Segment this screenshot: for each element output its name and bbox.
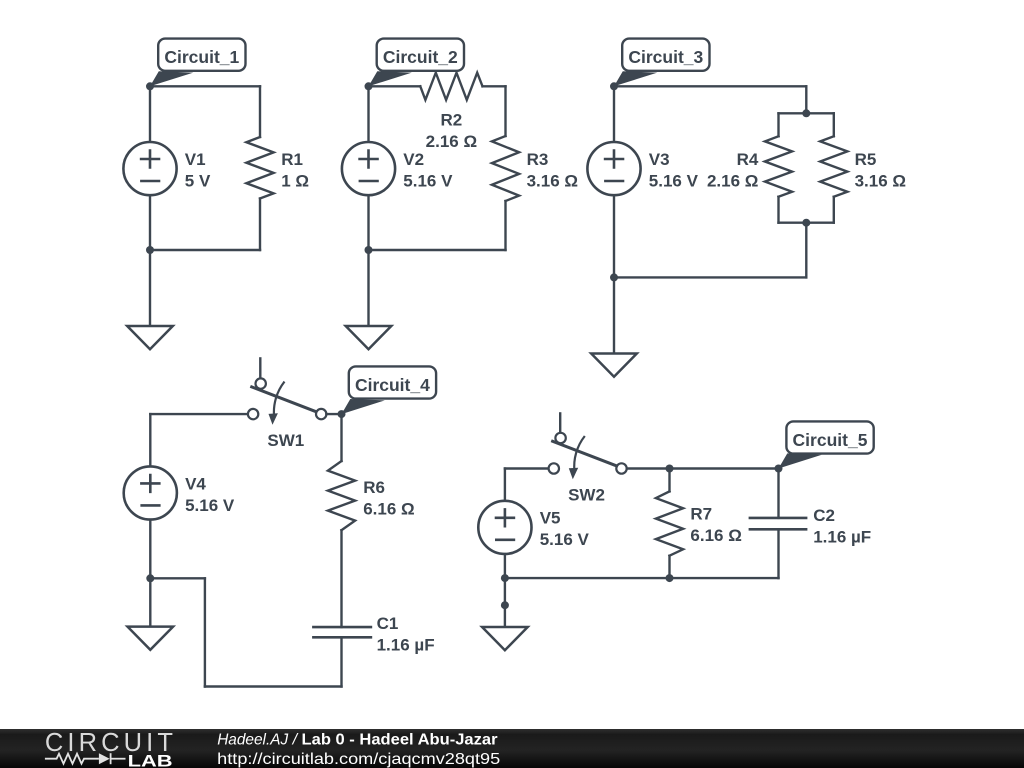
- ground GND4: [128, 627, 174, 650]
- wire left rail upper (node to V1 top): [149, 86, 151, 142]
- wire right rail upper (node to R1 top): [259, 86, 261, 137]
- node junction circuit 1 bottom: [146, 246, 154, 254]
- wire V5 bottom to bottom rail: [504, 554, 506, 578]
- svg-text:5.16 V: 5.16 V: [540, 530, 590, 549]
- resistor R6: [328, 461, 355, 530]
- CircuitLab logo circuit squiggle (resistor + diode): [45, 753, 126, 764]
- wire left rail lower (V2 bottom to bottom rail): [367, 195, 369, 250]
- wire parallel bottom bar: [779, 221, 834, 223]
- capacitor C1: [313, 627, 371, 637]
- svg-text:3.16 Ω: 3.16 Ω: [855, 171, 906, 190]
- node junction circuit 3 top left: [610, 82, 618, 90]
- node junction circuit 1 top: [146, 82, 154, 90]
- voltage source V5: [478, 501, 531, 554]
- ground GND2: [346, 326, 392, 349]
- wire C2 bottom stub: [777, 529, 779, 578]
- wire left rail upper (node to V3 top): [613, 86, 615, 142]
- flag label Circuit_5: [779, 421, 874, 468]
- capacitor C2: [750, 518, 806, 529]
- wire left rail lower (V3 bottom to bottom rail): [613, 195, 615, 277]
- wire drop from parallel block: [805, 223, 807, 278]
- svg-text:R1: R1: [281, 150, 303, 169]
- svg-text:3.16 Ω: 3.16 Ω: [527, 171, 578, 190]
- wire node to R6 top: [340, 414, 342, 461]
- wire ground stem circuit 5: [504, 578, 506, 627]
- wire top rail right segment circuit 2: [483, 85, 506, 87]
- svg-text:V5: V5: [540, 509, 561, 528]
- wire right rail lower (R1 bottom to bottom rail): [259, 199, 261, 251]
- voltage source V2: [342, 142, 395, 195]
- ground GND3: [591, 354, 637, 377]
- svg-text:R5: R5: [855, 150, 877, 169]
- wire ground stem circuit 1: [149, 250, 151, 326]
- wire R7 top stub: [668, 469, 670, 492]
- svg-text:V3: V3: [649, 150, 670, 169]
- wire R5 top stub: [833, 113, 835, 136]
- wire bottom rail circuit 2: [369, 249, 506, 251]
- svg-text:6.16 Ω: 6.16 Ω: [363, 499, 414, 518]
- wire bottom rail circuit 4: [205, 685, 342, 687]
- svg-text:R2: R2: [441, 111, 463, 130]
- svg-text:5.16 V: 5.16 V: [649, 171, 699, 190]
- svg-text:Circuit_5: Circuit_5: [793, 430, 868, 450]
- svg-text:Circuit_3: Circuit_3: [628, 47, 703, 67]
- svg-text:5.16 V: 5.16 V: [403, 171, 453, 190]
- ground GND5: [482, 627, 528, 650]
- flag label Circuit_1: [150, 39, 246, 87]
- svg-text:1.16 µF: 1.16 µF: [377, 636, 435, 655]
- footer black bar: [0, 729, 1024, 768]
- resistor R1: [246, 137, 273, 199]
- wire switch left lead circuit 5: [505, 467, 549, 469]
- svg-text:2.16 Ω: 2.16 Ω: [707, 171, 758, 190]
- wire node to left return: [150, 577, 205, 579]
- wire left rail upper (node to V2 top): [367, 86, 369, 142]
- svg-text:V2: V2: [403, 150, 424, 169]
- svg-text:C1: C1: [377, 614, 399, 633]
- svg-text:R6: R6: [363, 478, 385, 497]
- wire switch to V5 top: [504, 469, 506, 502]
- resistor R7: [656, 491, 683, 555]
- wire ground stem circuit 3: [613, 277, 615, 353]
- svg-text:5.16 V: 5.16 V: [185, 496, 235, 515]
- node junction circuit 5 bottom left: [501, 574, 509, 582]
- node junction C2 top: [775, 465, 783, 473]
- svg-text:V1: V1: [185, 150, 206, 169]
- svg-text:2.16 Ω: 2.16 Ω: [426, 132, 477, 151]
- svg-text:1 Ω: 1 Ω: [281, 171, 309, 190]
- node junction parallel top: [802, 109, 810, 117]
- flag label Circuit_2: [369, 39, 465, 87]
- wire switch right lead to C2 branch: [627, 467, 779, 469]
- wire right rail lower (R3 bottom to bottom rail): [504, 201, 506, 250]
- svg-text:R7: R7: [690, 505, 712, 524]
- svg-text:SW1: SW1: [267, 431, 304, 450]
- svg-text:6.16 Ω: 6.16 Ω: [690, 526, 741, 545]
- svg-text:SW2: SW2: [568, 485, 605, 504]
- node junction R7 bottom: [666, 574, 674, 582]
- wire bottom rail circuit 3: [614, 276, 806, 278]
- wire bottom rail circuit 5: [505, 577, 779, 579]
- svg-text:LAB: LAB: [128, 752, 173, 768]
- voltage source V4: [124, 466, 177, 519]
- svg-text:R3: R3: [527, 150, 549, 169]
- wire switch to V4 top: [149, 414, 151, 466]
- node junction circuit 2 bottom: [365, 246, 373, 254]
- ground GND1: [127, 326, 173, 349]
- wire R6 bottom to C1 top: [340, 530, 342, 627]
- wire top rail circuit 1: [150, 85, 260, 87]
- svg-text:Circuit_4: Circuit_4: [355, 375, 430, 395]
- wire left rail lower (V1 bottom to bottom rail): [149, 195, 151, 250]
- node junction R7 top: [666, 465, 674, 473]
- wire C2 top stub: [777, 469, 779, 518]
- flag label Circuit_4: [342, 366, 437, 414]
- voltage source V3: [587, 142, 640, 195]
- switch SW1: [248, 358, 326, 424]
- wire left return vertical: [204, 578, 206, 686]
- flag label Circuit_3: [614, 39, 710, 87]
- wire top rail left segment circuit 2: [369, 85, 421, 87]
- wire switch left lead circuit 4: [150, 413, 248, 415]
- svg-text:Circuit_1: Circuit_1: [164, 47, 239, 67]
- svg-text:C2: C2: [813, 506, 835, 525]
- wire top rail circuit 3: [614, 85, 806, 87]
- wire R4 bottom stub: [777, 197, 779, 223]
- wire V4 bottom to node: [149, 520, 151, 579]
- wire C1 bottom to bottom rail: [340, 637, 342, 686]
- wire parallel top bar: [779, 112, 834, 114]
- resistor R5: [820, 136, 847, 196]
- wire drop to parallel block: [805, 86, 807, 113]
- wire R7 bottom stub: [668, 556, 670, 578]
- wire bottom rail circuit 1: [150, 249, 260, 251]
- node junction ground stem: [501, 601, 509, 609]
- node junction circuit 4 top: [338, 410, 346, 418]
- svg-text:Circuit_2: Circuit_2: [383, 47, 458, 67]
- node junction circuit 3 bottom left: [610, 273, 618, 281]
- node junction parallel bottom: [802, 219, 810, 227]
- switch SW2: [549, 413, 627, 479]
- svg-text:1.16 µF: 1.16 µF: [813, 527, 871, 546]
- node junction circuit 4 bottom: [146, 574, 154, 582]
- svg-text:R4: R4: [737, 150, 759, 169]
- voltage source V1: [123, 142, 176, 195]
- wire R5 bottom stub: [833, 197, 835, 223]
- wire ground stem circuit 4: [149, 578, 151, 626]
- svg-text:5 V: 5 V: [185, 171, 211, 190]
- wire switch right lead to node: [326, 413, 341, 415]
- node junction circuit 2 top: [365, 82, 373, 90]
- wire R4 top stub: [777, 113, 779, 136]
- svg-text:http://circuitlab.com/cjaqcmv2: http://circuitlab.com/cjaqcmv28qt95: [217, 751, 500, 768]
- svg-text:V4: V4: [185, 474, 206, 493]
- resistor R2: [420, 73, 482, 100]
- wire ground stem circuit 2: [367, 250, 369, 326]
- wire right rail upper (corner to R3 top): [504, 86, 506, 136]
- resistor R3: [492, 136, 519, 201]
- svg-text:Hadeel.AJ / Lab 0 - Hadeel Abu: Hadeel.AJ / Lab 0 - Hadeel Abu-Jazar: [217, 731, 497, 748]
- resistor R4: [765, 136, 792, 196]
